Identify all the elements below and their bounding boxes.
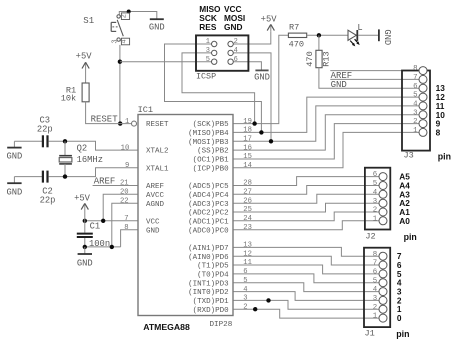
- wire PC3 to J2 pin4: [233, 194, 379, 205]
- wire PB5 to R7: [233, 35, 288, 123]
- LED L symbol: [348, 23, 363, 41]
- svg-text:6: 6: [234, 56, 238, 64]
- ground (C2 left): [6, 177, 22, 198]
- svg-text:2: 2: [373, 304, 377, 312]
- J3 pin 6: [413, 83, 427, 92]
- svg-text:RESET: RESET: [91, 115, 119, 125]
- svg-text:(T1)PD5: (T1)PD5: [197, 263, 229, 271]
- wire PC1 to J2 pin2: [233, 212, 379, 223]
- junction MOSI/PB3: [269, 139, 273, 143]
- svg-text:24: 24: [243, 215, 252, 223]
- svg-text:2: 2: [243, 303, 247, 311]
- svg-text:AGND: AGND: [146, 201, 165, 209]
- IC1 ATmega88 body: [138, 115, 233, 316]
- wire GND to C2: [14, 176, 42, 178]
- connector J3 box: [402, 71, 430, 151]
- svg-text:18: 18: [243, 127, 252, 135]
- svg-text:(OC1)PB1: (OC1)PB1: [193, 157, 230, 165]
- svg-text:4: 4: [373, 189, 378, 197]
- junction +5V/C1: [83, 219, 87, 223]
- svg-text:20: 20: [120, 189, 129, 197]
- svg-text:ATMEGA88: ATMEGA88: [143, 322, 190, 332]
- svg-text:(SS)PB2: (SS)PB2: [197, 148, 229, 156]
- ground (C3 left): [6, 141, 22, 161]
- svg-text:7: 7: [373, 260, 377, 268]
- wire R7 junction to R13: [318, 35, 320, 50]
- IC1 right pin numbers PB: [243, 118, 252, 170]
- svg-text:GND: GND: [224, 22, 242, 32]
- wire AGND down: [112, 203, 138, 247]
- svg-text:1: 1: [373, 313, 378, 321]
- wire VCC line: [85, 220, 138, 222]
- crystal Q2 labels: [77, 144, 103, 165]
- svg-text:6: 6: [373, 171, 377, 179]
- wire C1 bottom / GND bus: [85, 246, 121, 248]
- svg-text:3: 3: [206, 47, 210, 55]
- ICSP pin 3: [206, 47, 217, 56]
- svg-text:23: 23: [243, 224, 252, 232]
- J1 pin 5: [373, 277, 387, 286]
- junction TXD: [266, 298, 270, 302]
- svg-text:4: 4: [121, 39, 129, 43]
- switch S1 pin 4 box: [121, 38, 130, 45]
- svg-text:(AIN1)PD7: (AIN1)PD7: [188, 245, 229, 253]
- wire PC4 to J2 pin5: [233, 186, 379, 197]
- wire R13 to J3 pin6: [319, 68, 420, 89]
- IC1 right pin names: [188, 121, 229, 315]
- svg-text:GND: GND: [6, 152, 22, 162]
- wire PD0 to J1 pin1: [233, 303, 379, 318]
- connector J2 box: [365, 168, 390, 230]
- J3 pin 1: [413, 127, 427, 136]
- svg-text:12: 12: [243, 250, 252, 258]
- svg-text:(ADC1)PC1: (ADC1)PC1: [188, 218, 229, 226]
- svg-text:100n: 100n: [89, 239, 110, 249]
- svg-text:11: 11: [243, 259, 252, 267]
- wire ICSP GND: [231, 62, 262, 70]
- svg-text:16MHz: 16MHz: [77, 155, 103, 165]
- net label AREF (J3): [331, 71, 353, 81]
- svg-text:13: 13: [243, 242, 252, 250]
- svg-text:10k: 10k: [61, 94, 76, 104]
- svg-text:8: 8: [124, 224, 128, 232]
- svg-text:15: 15: [243, 153, 252, 161]
- svg-text:(MOSI)PB3: (MOSI)PB3: [188, 139, 229, 147]
- wire AREF to J3 pin8: [330, 70, 419, 72]
- svg-text:(ADC4)PC4: (ADC4)PC4: [188, 192, 229, 200]
- svg-text:J1: J1: [365, 329, 375, 339]
- svg-text:5: 5: [413, 92, 417, 100]
- svg-text:25: 25: [243, 206, 252, 214]
- svg-text:4: 4: [234, 47, 238, 55]
- net label GND (J3): [331, 80, 347, 90]
- svg-text:GND: GND: [146, 227, 160, 235]
- wire ICSP RES to reset node: [120, 61, 214, 63]
- svg-text:+5V: +5V: [74, 194, 91, 204]
- resistor R1: [61, 83, 89, 104]
- wire LED to GND: [358, 34, 379, 36]
- svg-text:3: 3: [373, 295, 377, 303]
- J2 pin 1: [373, 215, 387, 224]
- wire GND to C3: [14, 140, 42, 142]
- svg-text:8: 8: [373, 251, 377, 259]
- +5V supply (C1): [74, 194, 91, 221]
- svg-text:VCC: VCC: [146, 218, 160, 226]
- svg-text:470: 470: [305, 51, 315, 66]
- svg-text:(ADC0)PC0: (ADC0)PC0: [188, 227, 229, 235]
- wire GND bus to pin8: [121, 230, 138, 247]
- svg-text:7: 7: [413, 74, 417, 82]
- svg-text:1: 1: [373, 215, 378, 223]
- J3 label: [404, 151, 414, 161]
- J3 pin 3: [413, 109, 427, 118]
- J2 pin 2: [373, 207, 387, 216]
- wire ICSP SCK to PB5: [182, 53, 255, 124]
- J1 label: [365, 329, 375, 339]
- ICSP pin 6: [228, 56, 238, 65]
- junction crystal bottom: [63, 174, 67, 178]
- svg-text:C1: C1: [90, 221, 101, 231]
- junction MISO/PB4: [259, 130, 263, 134]
- wire PD5 to J1 pin6: [233, 259, 379, 274]
- svg-text:XTAL2: XTAL2: [146, 148, 169, 156]
- svg-text:4: 4: [243, 286, 247, 294]
- junction R7/R13/LED: [317, 33, 321, 37]
- +5V supply (ICSP): [261, 15, 278, 32]
- svg-text:22: 22: [120, 197, 129, 205]
- svg-text:IC1: IC1: [138, 105, 153, 115]
- svg-text:8: 8: [413, 65, 417, 73]
- svg-text:1: 1: [413, 127, 418, 135]
- wire R7 to LED: [307, 34, 348, 36]
- IC1 package DIP28: [210, 321, 233, 329]
- svg-text:7: 7: [124, 215, 128, 223]
- wire switch bottom to RESET node: [119, 45, 121, 124]
- wire PD3 to J1 pin4: [233, 277, 379, 292]
- IC1 designator: [138, 105, 153, 115]
- wire ICSP VCC to +5V: [231, 31, 271, 44]
- J1 pin 8: [373, 251, 387, 260]
- svg-text:(ADC5)PC5: (ADC5)PC5: [188, 183, 229, 191]
- svg-text:19: 19: [243, 118, 252, 126]
- wire ICSP MISO to PB4: [165, 44, 262, 132]
- wire PC0 to J2 pin1: [233, 221, 379, 232]
- wire AVCC to +5V node: [103, 194, 138, 221]
- IC1 left pin names: [146, 121, 169, 235]
- wire PB4 to J3 pin5: [233, 97, 420, 132]
- J1 pin caption: [396, 329, 409, 339]
- wire PC2 to J2 pin3: [233, 203, 379, 214]
- J3 pin 7: [413, 74, 427, 83]
- wire PD2 to J1 pin3: [233, 286, 379, 301]
- capacitor C2: [43, 171, 48, 183]
- svg-text:27: 27: [243, 189, 252, 197]
- junction at switch pin2: [127, 10, 131, 14]
- svg-text:5: 5: [206, 56, 210, 64]
- net label RESET: [91, 115, 119, 125]
- svg-text:26: 26: [243, 197, 252, 205]
- J3 pin 8: [413, 65, 427, 74]
- svg-text:2: 2: [413, 118, 417, 126]
- svg-text:(ADC3)PC3: (ADC3)PC3: [188, 201, 229, 209]
- svg-text:(SCK)PB5: (SCK)PB5: [193, 121, 230, 129]
- svg-text:0: 0: [397, 313, 402, 323]
- J2 label: [365, 232, 375, 242]
- junction RXD: [253, 307, 257, 311]
- svg-text:17: 17: [243, 136, 252, 144]
- wire PD1 to J1 pin2: [233, 295, 379, 310]
- wire PD4 to J1 pin5: [233, 268, 379, 283]
- resistor R13: [305, 50, 331, 67]
- switch S1 contact bottom: [117, 38, 120, 41]
- switch S1 lever: [117, 20, 123, 36]
- svg-text:J3: J3: [404, 151, 414, 161]
- crystal Q2: [59, 141, 72, 176]
- junction crystal top: [63, 139, 67, 143]
- svg-text:GND: GND: [6, 188, 22, 198]
- resistor R7: [288, 22, 306, 49]
- svg-text:ICSP: ICSP: [196, 71, 216, 81]
- svg-text:XTAL1: XTAL1: [146, 165, 169, 173]
- wire AREF stub: [93, 185, 138, 187]
- ICSP label: [196, 71, 216, 81]
- wire PD7 to J1 pin8: [233, 242, 379, 257]
- wire GND to J3 pin7: [330, 78, 419, 80]
- ground top (switch): [149, 19, 165, 33]
- connector J1 box: [364, 248, 390, 327]
- svg-text:GND: GND: [331, 80, 347, 90]
- svg-text:+5V: +5V: [261, 15, 278, 25]
- +5V supply (R1): [76, 51, 93, 83]
- junction AVCC/VCC: [101, 219, 105, 223]
- svg-text:L: L: [357, 23, 362, 33]
- svg-text:22p: 22p: [37, 125, 53, 135]
- svg-text:6: 6: [243, 268, 247, 276]
- svg-text:6: 6: [413, 83, 417, 91]
- svg-text:3: 3: [243, 295, 247, 303]
- svg-text:5: 5: [243, 277, 247, 285]
- svg-text:3: 3: [413, 109, 417, 117]
- svg-text:GND: GND: [77, 258, 93, 268]
- svg-text:(MISO)PB4: (MISO)PB4: [188, 130, 229, 138]
- capacitor C1: [77, 221, 93, 247]
- svg-text:R7: R7: [289, 22, 299, 32]
- svg-text:1: 1: [125, 118, 129, 126]
- IC1 pin 1 bubble: [132, 121, 137, 126]
- svg-text:pin: pin: [396, 329, 409, 339]
- svg-text:RES: RES: [199, 22, 217, 32]
- capacitor C3 labels: [37, 116, 53, 135]
- J1 pin 1: [373, 313, 387, 322]
- svg-text:A0: A0: [399, 216, 410, 226]
- LED arrows: [350, 39, 360, 46]
- J2 pin 3: [373, 198, 387, 207]
- svg-text:2: 2: [234, 38, 238, 46]
- wire R1 to RESET line: [86, 102, 132, 124]
- wire C2 to XTAL1: [49, 168, 138, 177]
- svg-text:10: 10: [121, 144, 130, 152]
- wire ICSP MOSI to PB3: [231, 53, 271, 141]
- svg-text:3: 3: [111, 39, 119, 43]
- switch S1 contact top: [117, 15, 120, 18]
- junction AGND/GND bus: [110, 245, 114, 249]
- J3 pin caption: [438, 152, 451, 162]
- capacitor C3: [43, 135, 48, 147]
- svg-text:21: 21: [120, 180, 129, 188]
- svg-text:2: 2: [121, 14, 129, 18]
- wire switch top to GND: [119, 12, 157, 19]
- J1 pin 7: [373, 260, 387, 269]
- svg-text:pin: pin: [404, 232, 417, 242]
- svg-text:3: 3: [373, 198, 377, 206]
- svg-text:8: 8: [436, 127, 441, 137]
- svg-text:(TXD)PD1: (TXD)PD1: [193, 298, 230, 306]
- svg-text:J2: J2: [365, 232, 375, 242]
- J1 pin 6: [373, 269, 387, 278]
- svg-text:pin: pin: [438, 152, 451, 162]
- switch S1 pin 2 box: [121, 13, 130, 20]
- svg-text:AVCC: AVCC: [146, 192, 165, 200]
- svg-text:(INT1)PD3: (INT1)PD3: [188, 280, 229, 288]
- ground (C1): [77, 247, 93, 268]
- J1 pin 3: [373, 295, 387, 304]
- J2 pin 4: [373, 189, 387, 198]
- svg-text:GND: GND: [254, 73, 270, 83]
- svg-text:RESET: RESET: [146, 121, 169, 129]
- wire PB3 to J3 pin4: [233, 106, 420, 141]
- IC1 left pin numbers: [120, 118, 129, 232]
- svg-text:(RXD)PD0: (RXD)PD0: [193, 307, 230, 315]
- wire PC5 to J2 pin6: [233, 177, 379, 188]
- J3 pin 2: [413, 118, 427, 127]
- junction C1 bottom: [83, 245, 87, 249]
- J2 pin 6: [373, 171, 387, 180]
- svg-text:22p: 22p: [40, 196, 56, 206]
- svg-text:+5V: +5V: [76, 51, 93, 61]
- svg-text:Q2: Q2: [77, 144, 88, 154]
- svg-text:(INT0)PD2: (INT0)PD2: [188, 289, 229, 297]
- J3 pin 5: [413, 92, 427, 101]
- ICSP labels top: [199, 4, 245, 32]
- svg-text:(ICP)PB0: (ICP)PB0: [193, 165, 230, 173]
- svg-text:6: 6: [373, 269, 377, 277]
- J1 pin 4: [373, 286, 387, 295]
- connector ICSP box: [196, 35, 248, 70]
- svg-text:(AIN0)PD6: (AIN0)PD6: [188, 254, 229, 262]
- J3 arduino pin labels: [436, 83, 446, 137]
- J1 pin 2: [373, 304, 387, 313]
- svg-text:28: 28: [243, 180, 252, 188]
- ICSP pin 2: [228, 38, 238, 47]
- svg-text:470: 470: [289, 40, 304, 50]
- svg-text:(ADC2)PC2: (ADC2)PC2: [188, 210, 229, 218]
- svg-text:(T0)PD4: (T0)PD4: [197, 272, 229, 280]
- J3 pin 4: [413, 101, 427, 110]
- J2 arduino pin labels: [399, 172, 410, 226]
- svg-text:9: 9: [125, 162, 129, 170]
- junction RESET line: [118, 121, 122, 125]
- capacitor C2 labels: [40, 187, 56, 206]
- switch S1 actuator bracket: [111, 22, 118, 31]
- wire PB0 to J3 pin1: [233, 132, 420, 167]
- wire PB2 to J3 pin3: [233, 115, 420, 150]
- IC1 name ATMEGA88: [143, 322, 190, 332]
- wire PB1 to J3 pin2: [233, 124, 420, 159]
- junction switch / ICSP RES: [118, 60, 122, 64]
- J1 arduino pin labels: [397, 251, 402, 323]
- svg-text:16: 16: [243, 144, 252, 152]
- svg-text:4: 4: [413, 101, 418, 109]
- J2 pin caption: [404, 232, 417, 242]
- svg-text:2: 2: [373, 207, 377, 215]
- svg-text:GND: GND: [149, 22, 165, 32]
- ground (LED) rotated: [379, 29, 392, 45]
- ICSP pin 1: [206, 38, 217, 47]
- svg-text:DIP28: DIP28: [210, 321, 233, 329]
- ICSP pin 4: [228, 47, 238, 56]
- svg-text:AREF: AREF: [146, 183, 164, 191]
- svg-text:1: 1: [206, 38, 210, 46]
- switch S1 pin 3 label: [111, 39, 119, 43]
- svg-text:5: 5: [373, 180, 377, 188]
- svg-text:S1: S1: [83, 16, 94, 26]
- switch S1 label: [83, 16, 94, 26]
- junction SCK/PB5: [252, 121, 256, 125]
- ICSP pin 5: [206, 56, 217, 65]
- capacitor C1 labels: [89, 221, 110, 249]
- net label AREF (left): [94, 177, 116, 187]
- svg-text:4: 4: [373, 286, 378, 294]
- wire C3 to XTAL2: [49, 141, 138, 150]
- svg-text:5: 5: [373, 277, 377, 285]
- svg-text:14: 14: [243, 162, 252, 170]
- ground (ICSP): [254, 70, 270, 82]
- wire PD6 to J1 pin7: [233, 250, 379, 265]
- J2 pin 5: [373, 180, 387, 189]
- svg-text:R13: R13: [322, 51, 332, 66]
- svg-text:GND: GND: [382, 29, 392, 45]
